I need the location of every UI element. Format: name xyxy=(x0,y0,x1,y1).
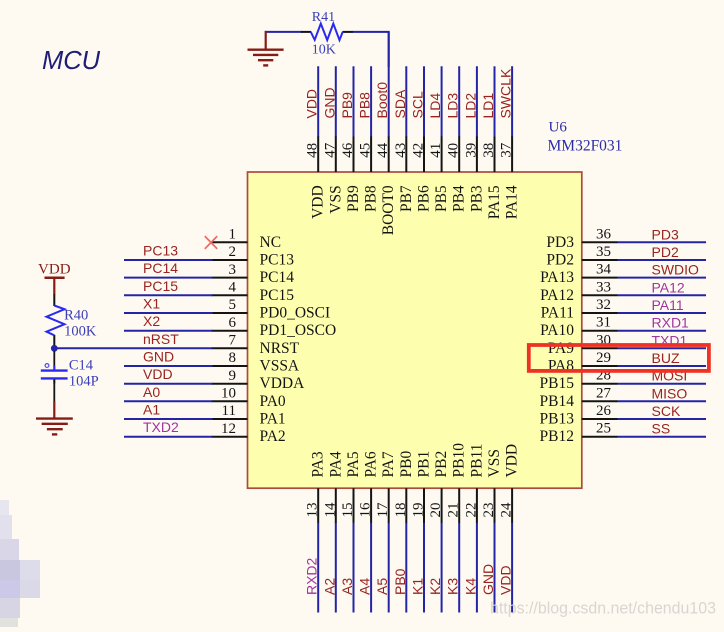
wire net PB0 xyxy=(405,523,407,613)
wire net LD3 xyxy=(458,66,460,136)
svg-text:VDD: VDD xyxy=(143,366,173,382)
resistor R41 xyxy=(301,10,353,58)
wire net X2 xyxy=(124,330,213,332)
svg-text:PA3: PA3 xyxy=(310,451,327,477)
svg-text:PB14: PB14 xyxy=(540,393,575,410)
svg-text:4: 4 xyxy=(229,280,237,296)
pin 12 (PA2) left xyxy=(212,421,286,445)
svg-text:GND: GND xyxy=(321,87,337,118)
svg-text:R41: R41 xyxy=(312,10,335,25)
wire net K3 xyxy=(458,523,460,613)
wire net PC13 xyxy=(124,259,213,261)
pin 2 (PC13) left xyxy=(212,244,295,268)
wire net PB8 xyxy=(370,66,372,136)
pin 28 (PB15) right xyxy=(540,368,618,393)
svg-text:PA1: PA1 xyxy=(260,411,286,428)
svg-text:GND: GND xyxy=(143,349,174,365)
wire net PB9 xyxy=(353,66,355,136)
wire net PA12 xyxy=(618,294,707,296)
svg-text:42: 42 xyxy=(411,143,427,158)
svg-text:LD3: LD3 xyxy=(445,93,461,119)
pin 15 (PA5) bottom xyxy=(340,451,362,523)
pin 13 (PA3) bottom xyxy=(305,451,327,523)
pin 43 (PB7) top xyxy=(393,136,415,212)
wire net LD1 xyxy=(494,66,496,136)
wire net A5 xyxy=(388,523,390,613)
svg-text:1: 1 xyxy=(229,227,237,243)
svg-text:PA9: PA9 xyxy=(548,340,574,357)
svg-text:MISO: MISO xyxy=(652,385,688,401)
pin 17 (PA7) bottom xyxy=(375,451,397,523)
wire net A3 xyxy=(353,523,355,613)
svg-text:15: 15 xyxy=(340,503,356,518)
svg-text:LD1: LD1 xyxy=(480,93,496,119)
svg-text:PB7: PB7 xyxy=(398,185,415,212)
svg-text:PB11: PB11 xyxy=(468,444,485,478)
svg-text:47: 47 xyxy=(322,142,338,158)
svg-text:10: 10 xyxy=(221,386,236,402)
ground symbol top xyxy=(248,31,284,66)
pin 24 (VDD) bottom xyxy=(499,444,521,523)
svg-text:PA11: PA11 xyxy=(652,297,684,313)
svg-text:16: 16 xyxy=(358,502,374,518)
svg-text:24: 24 xyxy=(499,502,515,517)
svg-text:GND: GND xyxy=(480,564,496,595)
wire net GND xyxy=(124,365,213,367)
svg-text:PC14: PC14 xyxy=(143,260,178,276)
svg-text:PB8: PB8 xyxy=(357,92,373,119)
wire net X1 xyxy=(124,312,213,314)
svg-text:41: 41 xyxy=(428,143,444,158)
pin 39 (PB3) top xyxy=(463,136,485,212)
power port VDD xyxy=(38,262,71,295)
pin 19 (PB1) bottom xyxy=(411,451,433,523)
wire net PA11 xyxy=(618,312,707,314)
svg-text:32: 32 xyxy=(596,297,611,313)
svg-text:PA6: PA6 xyxy=(363,451,380,477)
pin 48 (VDD) top xyxy=(305,136,327,219)
pin 25 (PB12) right xyxy=(540,421,618,446)
svg-text:104P: 104P xyxy=(69,374,99,390)
svg-text:PA5: PA5 xyxy=(345,451,362,477)
pin 22 (PB11) bottom xyxy=(463,444,485,524)
svg-text:PC13: PC13 xyxy=(260,252,295,269)
svg-text:X2: X2 xyxy=(143,313,160,329)
svg-text:PB0: PB0 xyxy=(392,568,408,595)
svg-text:25: 25 xyxy=(596,421,611,437)
wire net VDD xyxy=(317,66,319,136)
svg-text:SCL: SCL xyxy=(410,91,426,118)
svg-text:PB10: PB10 xyxy=(451,443,468,478)
svg-text:PB9: PB9 xyxy=(339,92,355,119)
svg-text:TXD2: TXD2 xyxy=(143,419,179,435)
wire net SCL xyxy=(423,66,425,136)
pin 10 (PA0) left xyxy=(212,386,286,410)
junction node nRST xyxy=(51,345,58,352)
pin 3 (PC14) left xyxy=(212,262,295,286)
pin 20 (PB2) bottom xyxy=(428,451,450,523)
svg-text:A2: A2 xyxy=(321,578,337,595)
svg-text:LD2: LD2 xyxy=(462,93,478,119)
wire net RXD1 xyxy=(618,330,707,332)
svg-text:BUZ: BUZ xyxy=(652,350,680,366)
svg-text:C14: C14 xyxy=(69,358,94,374)
pin 23 (VSS) bottom xyxy=(481,449,503,523)
wire net A2 xyxy=(335,523,337,613)
wire net PD2 xyxy=(618,259,707,261)
wire net SWDIO xyxy=(618,277,707,279)
svg-text:PA11: PA11 xyxy=(541,305,574,322)
wire net TXD2 xyxy=(124,436,213,438)
svg-text:BOOT0: BOOT0 xyxy=(380,185,397,235)
pin 30 (PA9) right xyxy=(548,332,618,357)
pin 11 (PA1) left xyxy=(212,403,286,427)
wire net Boot0 xyxy=(388,32,390,137)
wire net GND xyxy=(494,523,496,613)
svg-text:A3: A3 xyxy=(339,578,355,595)
svg-text:PD0_OSCI: PD0_OSCI xyxy=(260,305,331,322)
ground symbol left xyxy=(36,401,73,434)
svg-text:37: 37 xyxy=(499,142,515,157)
pin 45 (PB8) top xyxy=(358,136,380,212)
svg-text:PA14: PA14 xyxy=(504,185,521,219)
pin 46 (PB9) top xyxy=(340,136,362,212)
wire net VDD xyxy=(511,523,513,613)
svg-text:38: 38 xyxy=(481,143,497,158)
pin 26 (PB13) right xyxy=(540,403,618,428)
wire net PD3 xyxy=(618,241,707,243)
svg-text:17: 17 xyxy=(375,502,391,518)
svg-text:27: 27 xyxy=(596,385,612,401)
pin 21 (PB10) bottom xyxy=(446,443,468,523)
pin 27 (PB14) right xyxy=(540,385,618,410)
svg-text:12: 12 xyxy=(221,421,236,437)
svg-text:2: 2 xyxy=(229,244,237,260)
svg-text:PA15: PA15 xyxy=(486,185,503,219)
svg-text:13: 13 xyxy=(305,503,321,518)
svg-text:PA12: PA12 xyxy=(540,287,574,304)
svg-text:VSSA: VSSA xyxy=(260,358,300,375)
wire R41 to Boot0 xyxy=(353,32,389,67)
pin 47 (VSS) top xyxy=(322,136,344,214)
svg-text:K3: K3 xyxy=(445,578,461,595)
svg-text:PA2: PA2 xyxy=(260,428,286,445)
svg-text:U6: U6 xyxy=(549,120,568,136)
svg-text:PC13: PC13 xyxy=(143,243,178,259)
svg-text:K2: K2 xyxy=(427,578,443,595)
svg-text:35: 35 xyxy=(596,244,611,260)
pin 38 (PA15) top xyxy=(481,136,503,219)
svg-text:40: 40 xyxy=(446,143,462,158)
svg-text:SWCLK: SWCLK xyxy=(498,68,514,118)
svg-text:PD2: PD2 xyxy=(652,244,679,260)
wire net GND xyxy=(335,66,337,136)
pin 37 (PA14) top xyxy=(499,136,521,219)
pin 36 (PD3) right xyxy=(546,226,617,251)
svg-text:PB12: PB12 xyxy=(540,428,574,445)
svg-text:PB6: PB6 xyxy=(416,185,433,212)
wire net SDA xyxy=(405,66,407,136)
wire net PC15 xyxy=(124,294,213,296)
svg-text:VDD: VDD xyxy=(310,185,327,219)
svg-text:PB8: PB8 xyxy=(363,185,380,212)
svg-text:PD1_OSCO: PD1_OSCO xyxy=(260,322,337,339)
pin 14 (PA4) bottom xyxy=(322,451,344,523)
svg-text:VDD: VDD xyxy=(304,89,320,119)
wire net PC14 xyxy=(124,277,213,279)
pin 4 (PC15) left xyxy=(212,280,295,304)
svg-text:nRST: nRST xyxy=(143,331,179,347)
pin 5 (PD0_OSCI) left xyxy=(212,297,331,321)
pin 44 (BOOT0) top xyxy=(375,136,397,235)
wire net A1 xyxy=(124,418,213,420)
wire net MOSI xyxy=(618,383,707,385)
svg-text:PC15: PC15 xyxy=(143,278,178,294)
svg-text:7: 7 xyxy=(229,333,237,349)
svg-text:VDD: VDD xyxy=(504,444,521,478)
svg-text:PA0: PA0 xyxy=(260,393,286,410)
svg-text:PD3: PD3 xyxy=(652,226,679,242)
wire net K2 xyxy=(441,523,443,613)
svg-text:5: 5 xyxy=(229,297,237,313)
wire net A0 xyxy=(124,400,213,402)
svg-text:45: 45 xyxy=(358,143,374,158)
svg-text:https://blog.csdn.net/chendu10: https://blog.csdn.net/chendu103 xyxy=(490,599,716,618)
svg-text:X1: X1 xyxy=(143,296,160,312)
svg-text:6: 6 xyxy=(229,315,237,331)
pin 7 (NRST) left xyxy=(212,333,300,357)
svg-text:VSS: VSS xyxy=(327,185,344,213)
svg-text:36: 36 xyxy=(596,226,612,242)
svg-text:PB9: PB9 xyxy=(345,185,362,212)
pin 40 (PB4) top xyxy=(446,136,468,212)
svg-text:11: 11 xyxy=(222,403,236,419)
svg-text:PA7: PA7 xyxy=(380,451,397,477)
svg-text:PD2: PD2 xyxy=(546,252,574,269)
svg-text:9: 9 xyxy=(229,368,237,384)
svg-text:PC15: PC15 xyxy=(260,287,295,304)
svg-text:SWDIO: SWDIO xyxy=(652,262,700,278)
svg-text:VDD: VDD xyxy=(498,565,514,595)
svg-text:10K: 10K xyxy=(312,43,336,58)
wire net LD4 xyxy=(441,66,443,136)
no-ERC cross pin 1 xyxy=(205,236,217,249)
svg-text:Boot0: Boot0 xyxy=(374,82,390,119)
svg-text:PA12: PA12 xyxy=(652,279,685,295)
svg-text:MCU: MCU xyxy=(42,47,101,75)
svg-text:PD3: PD3 xyxy=(546,234,574,251)
svg-text:K4: K4 xyxy=(462,578,478,595)
wire net TXD1 xyxy=(618,347,707,349)
pin 9 (VDDA) left xyxy=(212,368,306,392)
svg-text:NRST: NRST xyxy=(260,340,300,357)
svg-text:46: 46 xyxy=(340,142,356,158)
wire net BUZ xyxy=(618,365,707,367)
wire net SS xyxy=(618,436,707,438)
pin 35 (PD2) right xyxy=(546,244,617,269)
wire net VDD xyxy=(124,383,213,385)
svg-text:43: 43 xyxy=(393,143,409,158)
svg-text:19: 19 xyxy=(411,503,427,518)
svg-text:33: 33 xyxy=(596,279,611,295)
svg-text:48: 48 xyxy=(305,143,321,158)
resistor R40 xyxy=(47,295,97,347)
svg-text:44: 44 xyxy=(375,142,391,158)
svg-text:PB3: PB3 xyxy=(468,185,485,212)
svg-text:R40: R40 xyxy=(64,308,88,324)
svg-text:14: 14 xyxy=(322,502,338,518)
MCU U6 body xyxy=(248,172,582,488)
svg-text:20: 20 xyxy=(428,503,444,518)
pin 31 (PA10) right xyxy=(540,315,617,340)
svg-text:PB2: PB2 xyxy=(433,451,450,478)
svg-text:29: 29 xyxy=(596,350,611,366)
svg-text:A5: A5 xyxy=(374,578,390,595)
svg-text:34: 34 xyxy=(596,262,612,278)
wire ground to R41 xyxy=(265,31,302,33)
pin 32 (PA11) right xyxy=(541,297,618,322)
capacitor C14 xyxy=(41,351,99,402)
svg-text:VDD: VDD xyxy=(38,262,71,278)
svg-text:PB15: PB15 xyxy=(540,375,575,392)
svg-text:31: 31 xyxy=(596,315,611,331)
svg-text:23: 23 xyxy=(481,503,497,518)
pin 1 (NC) left xyxy=(212,227,282,251)
wire net nRST xyxy=(54,347,212,349)
svg-text:PA4: PA4 xyxy=(327,451,344,477)
wire net K1 xyxy=(423,523,425,613)
svg-text:21: 21 xyxy=(446,503,462,518)
pin 42 (PB6) top xyxy=(411,136,433,212)
pin 34 (PA13) right xyxy=(540,262,617,287)
svg-text:PA10: PA10 xyxy=(540,322,574,339)
pin 33 (PA12) right xyxy=(540,279,617,304)
svg-text:LD4: LD4 xyxy=(427,93,443,119)
pin 8 (VSSA) left xyxy=(212,350,300,374)
pin 16 (PA6) bottom xyxy=(358,451,380,523)
wire net LD2 xyxy=(476,66,478,136)
svg-text:8: 8 xyxy=(229,350,237,366)
svg-text:PB4: PB4 xyxy=(451,185,468,212)
pin 18 (PB0) bottom xyxy=(393,451,415,524)
svg-text:A0: A0 xyxy=(143,384,160,400)
svg-text:SDA: SDA xyxy=(392,89,408,118)
svg-text:PA13: PA13 xyxy=(540,269,574,286)
pin 29 (PA8) right xyxy=(548,350,618,375)
svg-text:22: 22 xyxy=(463,503,479,518)
svg-text:100K: 100K xyxy=(64,324,97,340)
svg-text:PB1: PB1 xyxy=(416,451,433,478)
wire net MISO xyxy=(618,400,707,402)
svg-text:PB5: PB5 xyxy=(433,185,450,212)
svg-text:3: 3 xyxy=(229,262,237,278)
wire net SCK xyxy=(618,418,707,420)
svg-text:18: 18 xyxy=(393,503,409,518)
watermark logo (faint) xyxy=(0,500,40,627)
pin 41 (PB5) top xyxy=(428,136,450,212)
pin 6 (PD1_OSCO) left xyxy=(212,315,337,339)
highlight box around pin 29 BUZ xyxy=(529,345,709,371)
wire net SWCLK xyxy=(511,66,513,136)
svg-text:PB0: PB0 xyxy=(398,451,415,478)
svg-text:A1: A1 xyxy=(143,402,160,418)
svg-text:SCK: SCK xyxy=(652,403,681,419)
wire net RXD2 xyxy=(317,523,319,613)
svg-text:VSS: VSS xyxy=(486,449,503,477)
svg-text:PB13: PB13 xyxy=(540,411,575,428)
svg-text:K1: K1 xyxy=(410,578,426,595)
wire net A4 xyxy=(370,523,372,613)
wire net K4 xyxy=(476,523,478,613)
svg-text:39: 39 xyxy=(463,143,479,158)
svg-text:PC14: PC14 xyxy=(260,269,295,286)
svg-text:RXD1: RXD1 xyxy=(652,315,690,331)
svg-text:A4: A4 xyxy=(357,578,373,595)
svg-text:VDDA: VDDA xyxy=(260,375,306,392)
svg-text:RXD2: RXD2 xyxy=(304,557,320,595)
svg-text:MM32F031: MM32F031 xyxy=(548,138,623,155)
svg-text:NC: NC xyxy=(260,234,282,251)
svg-text:26: 26 xyxy=(596,403,612,419)
svg-text:SS: SS xyxy=(652,421,671,437)
